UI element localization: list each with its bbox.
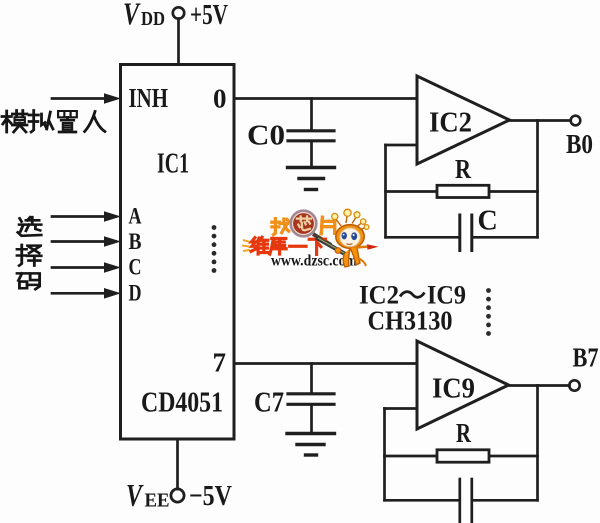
svg-text:R: R <box>455 154 471 184</box>
svg-text:IC2: IC2 <box>429 108 472 139</box>
svg-text:+5V: +5V <box>190 0 228 31</box>
svg-text:0: 0 <box>213 84 227 114</box>
svg-text:B0: B0 <box>566 129 593 159</box>
svg-text:D: D <box>129 280 142 305</box>
svg-text:C0: C0 <box>247 120 285 152</box>
svg-text:V: V <box>126 477 144 513</box>
svg-text:CD4051: CD4051 <box>141 388 223 419</box>
svg-text:IC9: IC9 <box>432 374 475 405</box>
svg-text:INH: INH <box>129 83 169 113</box>
svg-text:B7: B7 <box>573 343 599 373</box>
svg-text:7: 7 <box>213 348 227 378</box>
svg-text:C: C <box>478 206 498 237</box>
svg-text:IC1: IC1 <box>157 149 189 180</box>
svg-text:CH3130: CH3130 <box>368 306 453 336</box>
svg-text:A: A <box>129 204 142 229</box>
svg-text:B: B <box>129 229 142 254</box>
svg-text:−5V: −5V <box>189 480 232 512</box>
svg-text:C7: C7 <box>254 388 284 419</box>
svg-text:V: V <box>123 0 141 32</box>
svg-text:C: C <box>129 255 142 280</box>
svg-text:EE: EE <box>145 490 170 512</box>
svg-text:R: R <box>456 418 471 448</box>
svg-text:DD: DD <box>141 8 165 30</box>
